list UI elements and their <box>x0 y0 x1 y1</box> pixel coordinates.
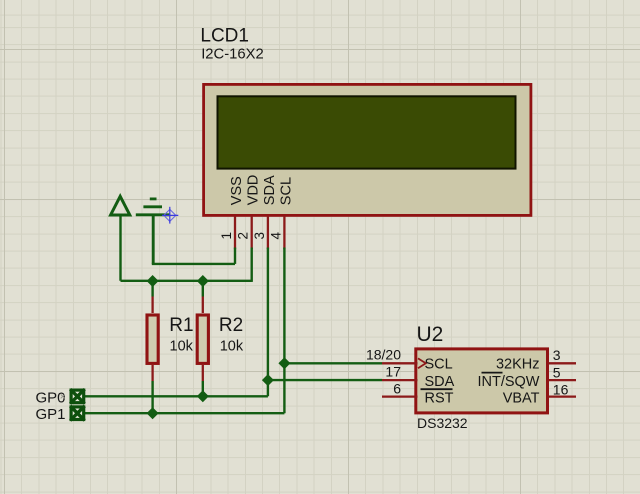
junction at R2 top <box>197 275 209 287</box>
INT overline <box>482 372 503 374</box>
label U2 <box>417 323 444 346</box>
pin number 4 <box>268 232 283 240</box>
wire pin3 SDA vertical <box>267 248 269 397</box>
svg-text:18/20: 18/20 <box>366 347 401 363</box>
value I2C-16X2 <box>201 47 264 63</box>
wire R1 bottom <box>151 381 153 413</box>
svg-text:U2: U2 <box>417 323 444 346</box>
terminal GP0 pin end marker <box>61 394 65 398</box>
wire pin1 vertical <box>234 248 236 264</box>
U2 pin VBAT stub <box>549 395 577 397</box>
junction R2/GP0 <box>197 390 209 402</box>
wire ground stem <box>152 215 155 264</box>
svg-text:17: 17 <box>385 363 401 379</box>
U2 pin 32KHz stub <box>549 362 577 364</box>
svg-text:SDA: SDA <box>262 175 278 205</box>
ground symbol <box>136 199 170 215</box>
wire SDA to U2 <box>268 379 382 381</box>
label R1 <box>169 315 193 336</box>
wire R2 top <box>202 281 204 297</box>
wire R2 bottom <box>202 381 204 396</box>
pin number 3 <box>252 232 267 240</box>
value 10k (R2) <box>220 339 244 355</box>
svg-text:DS3232: DS3232 <box>417 415 468 431</box>
pin 1 stub <box>234 216 236 249</box>
LCD module body LCD1 <box>204 84 531 215</box>
svg-text:5: 5 <box>553 364 561 380</box>
wire power rail <box>121 280 252 282</box>
pin label VSS <box>229 176 245 205</box>
pin number 6 <box>393 381 401 397</box>
value 10k (R1) <box>170 339 194 355</box>
svg-text:3: 3 <box>252 232 267 240</box>
svg-text:SDA: SDA <box>425 374 455 390</box>
pin number 1 <box>219 232 234 240</box>
svg-text:GP1: GP1 <box>36 406 66 423</box>
U2 pin name RST <box>425 391 454 407</box>
wire ground horizontal to pin1 <box>152 263 235 265</box>
svg-text:4: 4 <box>268 232 283 240</box>
label R2 <box>219 315 243 336</box>
pin label SCL <box>278 177 294 205</box>
label GP1 <box>36 406 66 423</box>
svg-text:SCL: SCL <box>425 356 453 372</box>
pin label SDA <box>262 175 278 205</box>
U2 pin name SDA <box>425 374 455 390</box>
pin number 17 <box>385 363 401 379</box>
R2 bottom pin stub <box>202 365 204 381</box>
label GP0 <box>36 389 66 406</box>
U2 pin RST stub <box>382 395 418 397</box>
svg-text:LCD1: LCD1 <box>200 25 249 46</box>
wire pin4 SCL vertical <box>283 248 285 414</box>
pin number 2 <box>236 232 251 240</box>
U2 pin name SCL <box>425 356 453 372</box>
svg-text:3: 3 <box>553 347 561 363</box>
R1 top pin stub <box>151 297 153 314</box>
svg-text:RST: RST <box>425 391 454 407</box>
svg-text:6: 6 <box>393 381 401 397</box>
pin 2 stub <box>251 216 253 249</box>
IC U2 body <box>416 349 548 413</box>
svg-text:I2C-16X2: I2C-16X2 <box>201 47 264 63</box>
pin number 5 <box>553 364 561 380</box>
terminal GP1 <box>70 406 84 420</box>
LCD screen <box>218 96 516 168</box>
junction at R1 top <box>147 275 159 287</box>
pin 4 stub <box>283 216 285 249</box>
wire GP0 horizontal <box>85 395 268 397</box>
svg-text:VDD: VDD <box>246 175 262 206</box>
svg-text:10k: 10k <box>170 339 194 355</box>
junction R1/GP1 <box>147 407 159 419</box>
U2 pin name INT/SQW <box>477 374 539 390</box>
U2 pin name 32KHz <box>496 356 540 372</box>
svg-text:INT/SQW: INT/SQW <box>477 374 539 390</box>
label LCD1 <box>200 25 249 46</box>
value DS3232 <box>417 415 468 431</box>
R1 bottom pin stub <box>151 365 153 381</box>
junction SDA node <box>262 374 274 386</box>
U2 pin SDA stub <box>382 379 418 381</box>
svg-text:R1: R1 <box>169 315 193 336</box>
pin number 3 <box>553 347 561 363</box>
RST overline <box>421 388 453 390</box>
pin label VDD <box>246 175 262 206</box>
svg-text:1: 1 <box>219 232 234 240</box>
svg-text:R2: R2 <box>219 315 243 336</box>
U2 pin SCL stub <box>382 362 418 364</box>
R2 top pin stub <box>202 297 204 314</box>
svg-text:16: 16 <box>553 382 569 398</box>
terminal GP0 <box>70 389 84 403</box>
svg-text:10k: 10k <box>220 339 244 355</box>
origin marker (blue) <box>162 207 178 224</box>
wire SCL to U2 <box>284 362 382 364</box>
svg-text:32KHz: 32KHz <box>496 356 540 372</box>
svg-text:VSS: VSS <box>229 176 245 205</box>
svg-text:SCL: SCL <box>278 177 294 205</box>
junction SCL node <box>278 357 290 369</box>
svg-text:VBAT: VBAT <box>503 391 540 407</box>
wire rail to pin2 <box>250 248 252 282</box>
resistor R2 body <box>197 315 208 363</box>
pin number 18/20 <box>366 347 401 363</box>
pin number 16 <box>553 382 569 398</box>
svg-text:2: 2 <box>236 232 251 240</box>
wire GP1 horizontal <box>85 412 284 414</box>
resistor R1 body <box>147 315 158 363</box>
power terminal VCC arrow <box>111 196 130 280</box>
U2 SCL clock chevron <box>418 358 426 368</box>
U2 pin INT/SQW stub <box>549 379 577 381</box>
U2 pin name VBAT <box>503 391 540 407</box>
pin 3 stub <box>267 216 269 249</box>
wire R1 top <box>151 281 153 297</box>
